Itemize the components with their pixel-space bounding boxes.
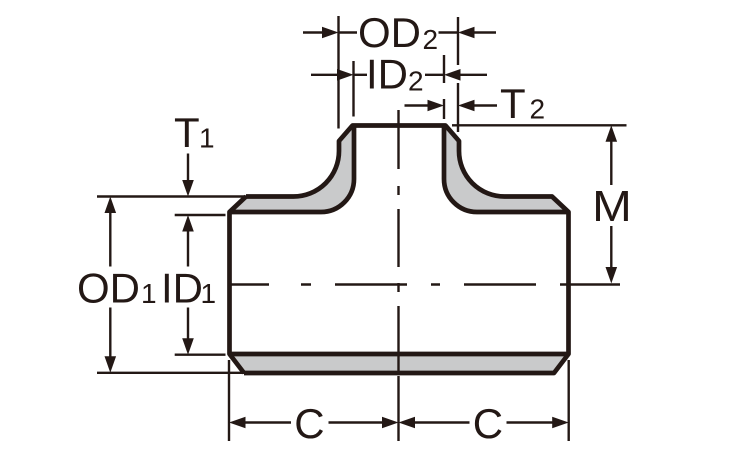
tee body outline: [230, 126, 569, 374]
svg-text:C: C: [473, 400, 503, 447]
svg-text:2: 2: [408, 66, 424, 97]
svg-text:T: T: [174, 109, 200, 156]
vertical centerline: [397, 110, 399, 441]
svg-text:OD: OD: [77, 265, 140, 312]
dimension C right: [399, 400, 569, 447]
extension line M: [452, 124, 627, 126]
dimension ID2: [311, 51, 487, 98]
horizontal centerline: [230, 283, 620, 285]
svg-text:OD: OD: [358, 9, 421, 56]
extension lines ID1: [175, 215, 226, 355]
dimension C left: [229, 400, 399, 447]
svg-text:M: M: [592, 183, 632, 231]
dimension T2: [405, 80, 546, 127]
svg-text:ID: ID: [366, 51, 408, 98]
dimension OD1: [77, 197, 157, 373]
svg-text:ID: ID: [161, 265, 203, 312]
dimension OD2: [303, 9, 496, 56]
dimension M: [592, 125, 632, 283]
tee body wall section right (gray fill): [444, 126, 569, 213]
svg-text:1: 1: [141, 278, 157, 309]
svg-text:2: 2: [423, 24, 439, 55]
extension lines OD2: [339, 16, 459, 132]
extension lines OD1: [97, 197, 246, 373]
tee body wall section left (gray fill): [230, 126, 355, 213]
svg-text:C: C: [294, 400, 324, 447]
svg-text:2: 2: [530, 94, 546, 125]
svg-text:1: 1: [199, 123, 215, 154]
extension lines C: [229, 360, 569, 441]
extension lines ID2: [354, 55, 445, 119]
dimension T1: [174, 109, 215, 197]
tee body wall section bottom (gray fill): [230, 354, 569, 373]
svg-text:1: 1: [201, 278, 217, 309]
dimension ID1: [161, 215, 216, 355]
svg-text:T: T: [500, 80, 526, 127]
